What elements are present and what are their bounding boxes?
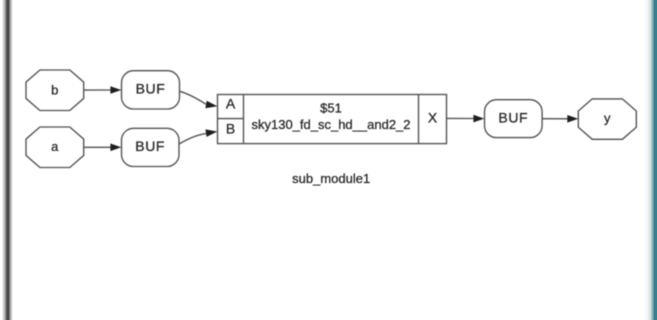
input port a (octagon) [26, 127, 84, 168]
wire pin X to BUF3 [447, 117, 475, 119]
svg-text:y: y [604, 111, 611, 126]
svg-text:a: a [51, 139, 59, 154]
output port y (octagon) [578, 99, 636, 139]
pin divider between A and B [218, 118, 244, 120]
cell $51 sky130_fd_sc_hd__and2_2 outer box [218, 95, 447, 144]
left window edge line [2, 0, 13, 320]
wire BUF1 to pin A [179, 91, 206, 104]
buffer U_BUF3 (output) [485, 100, 543, 138]
svg-text:B: B [226, 120, 235, 136]
svg-text:A: A [226, 95, 236, 111]
arrowhead into BUF3 [473, 115, 484, 123]
arrowhead into pin A [205, 101, 217, 109]
svg-text:sub_module1: sub_module1 [292, 171, 370, 186]
wire a to BUF2 [84, 146, 111, 148]
svg-text:BUF: BUF [136, 81, 166, 97]
arrowhead into BUF2 [110, 144, 121, 152]
pin field divider A/B column [243, 95, 245, 144]
arrowhead into pin B [205, 129, 217, 137]
wire b to BUF1 [84, 89, 111, 91]
svg-text:sky130_fd_sc_hd__and2_2: sky130_fd_sc_hd__and2_2 [251, 117, 410, 132]
svg-text:BUF: BUF [498, 109, 528, 125]
right teal scrollbar [643, 0, 657, 320]
svg-text:X: X [428, 110, 438, 126]
arrowhead into y [567, 115, 578, 123]
pin field divider X column [418, 95, 420, 144]
buffer U_BUF1 (top) [122, 71, 180, 109]
buffer U_BUF2 (bottom) [122, 128, 180, 166]
svg-text:b: b [51, 82, 58, 97]
wire BUF2 to pin B [179, 134, 206, 144]
svg-text:$51: $51 [320, 101, 342, 116]
wire BUF3 to y [542, 118, 568, 120]
svg-text:BUF: BUF [135, 138, 165, 154]
arrowhead into BUF1 [110, 86, 121, 94]
input port b (octagon) [26, 70, 84, 111]
